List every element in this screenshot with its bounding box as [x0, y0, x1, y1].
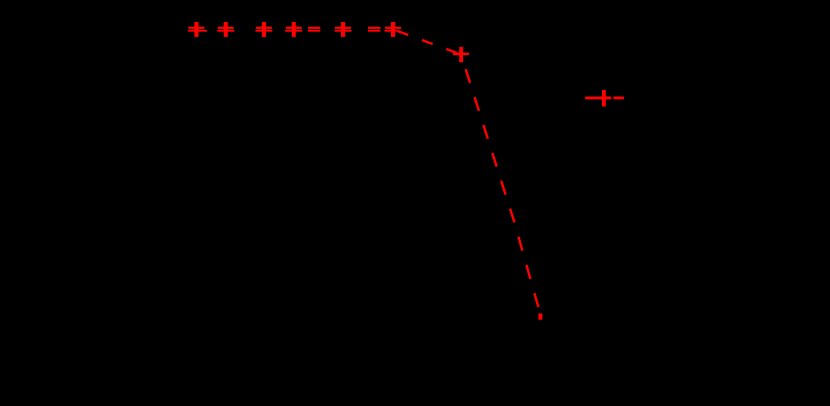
- lower dashed line: dash at marker 4: [285, 30, 302, 32]
- upper dashed line: dash at marker 5: [335, 27, 351, 29]
- marker 6 plus vertical bar: [391, 22, 395, 37]
- marker 4 plus vertical bar: [292, 22, 296, 37]
- upper dashed line: dash between markers 5-6: [368, 27, 380, 29]
- marker 5 plus vertical bar: [341, 22, 345, 37]
- lower dashed line: dash at marker 3: [255, 30, 272, 32]
- bend marker plus vertical bar: [459, 47, 463, 63]
- steep descent dashed segment from bend marker to curve end: [461, 55, 540, 314]
- upper dashed line: dash at marker 2: [218, 27, 234, 29]
- legend sample trailing dash: [613, 97, 624, 100]
- upper dashed line: dash at marker 3: [256, 27, 272, 29]
- lower dashed line: dash at marker 6: [385, 30, 398, 32]
- marker 2 plus vertical bar: [224, 22, 228, 37]
- final clipped dash at curve end near axis: [538, 314, 542, 320]
- lower dashed line: dash between markers 4-5: [308, 30, 320, 32]
- lower dashed line: dash at marker 2: [217, 30, 234, 32]
- upper dashed line: dash at marker 4: [286, 27, 302, 29]
- upper dashed line: dash at marker 6: [385, 27, 401, 29]
- upper dashed line: dash at marker 1: [188, 27, 204, 29]
- marker 1 plus vertical bar: [194, 22, 198, 37]
- legend sample line segment: [585, 97, 611, 100]
- gentle descent dashed segment from marker 6 to bend marker: [398, 31, 462, 55]
- legend sample plus vertical bar: [602, 90, 606, 107]
- lower dashed line: dash between markers 5-6: [368, 30, 380, 32]
- upper dashed line: dash between markers 4-5: [308, 27, 320, 29]
- lower dashed line: dash at marker 1: [188, 30, 207, 32]
- marker 3 plus vertical bar: [262, 22, 266, 37]
- bend marker plus horizontal arm: [453, 53, 469, 56]
- lower dashed line: dash at marker 5: [335, 30, 352, 32]
